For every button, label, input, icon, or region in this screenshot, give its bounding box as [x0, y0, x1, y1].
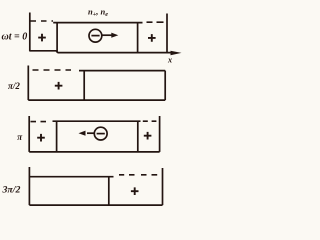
svg-text:n+, ne: n+, ne [88, 6, 108, 18]
row3 electron slab box [53, 121, 141, 152]
row3 bottom edge [29, 151, 159, 153]
row1 dashed top right segment [147, 21, 164, 23]
row1 velocity arrow right [102, 34, 112, 36]
svg-text:ωt = 0: ωt = 0 [2, 32, 28, 43]
row1 bottom edge with x-axis line [29, 51, 174, 53]
row2 electron slab box displaced right [79, 71, 165, 101]
row1 plus charge left [38, 34, 46, 42]
row3 plus charge right [144, 132, 152, 140]
row1 dashed top left segment [31, 20, 54, 22]
row1 electron circle (minus in circle) [89, 29, 102, 42]
row2 dashed top segment [33, 69, 72, 71]
svg-text:3π/2: 3π/2 [2, 184, 21, 195]
label pi (row 3) [17, 132, 23, 142]
row3 dashed top left segment [31, 121, 47, 123]
svg-text:π: π [17, 132, 23, 142]
row4 outer box right edge [162, 168, 164, 205]
row2 outer box left edge [27, 66, 29, 101]
row3 electron circle (minus in circle) [94, 127, 107, 140]
label 3pi/2 (row 4) [2, 184, 21, 195]
row1 outer box right edge [166, 14, 168, 53]
row4 plus charge [131, 187, 139, 195]
x-axis arrowhead [171, 51, 182, 56]
svg-text:π/2: π/2 [8, 81, 20, 91]
row4 bottom edge [29, 204, 162, 206]
row3 plus charge left [37, 134, 45, 142]
row1 plus charge right [148, 34, 156, 42]
x-axis label x [167, 55, 172, 64]
row3 velocity arrow left [87, 132, 95, 134]
label wt = 0 (row 1) [2, 32, 28, 43]
row4 dashed top right segment [119, 174, 157, 176]
row3 outer box left edge [28, 116, 30, 152]
row2 plus charge [55, 82, 63, 90]
label pi/2 (row 2) [8, 81, 20, 91]
svg-text:x: x [167, 55, 172, 64]
row4 outer box left edge [28, 167, 30, 205]
row1 outer box left edge [29, 13, 31, 51]
row1 electron slab box [53, 23, 142, 53]
row2 bottom edge [28, 99, 165, 101]
row4 electron slab box displaced left [29, 177, 113, 205]
row3 outer box right edge [159, 116, 161, 152]
row3 dashed top right segment [143, 120, 157, 122]
label n+, ne (density label above first box) [88, 6, 108, 18]
